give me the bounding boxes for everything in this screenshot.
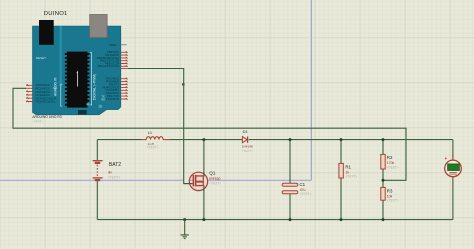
wire: D8 gate drive [128, 69, 191, 184]
transistor Q1 [184, 172, 208, 191]
svg-text:<TEXT>: <TEXT> [242, 149, 253, 153]
node: C1 top junction [289, 138, 292, 141]
svg-text:ARDUINO UNO R3: ARDUINO UNO R3 [32, 115, 62, 119]
node: R3 bottom junction [382, 218, 385, 221]
light stripe [60, 26, 62, 86]
svg-text:<TEXT>: <TEXT> [147, 145, 159, 149]
svg-text:<TEXT>: <TEXT> [300, 192, 312, 196]
wire: C1 bottom [289, 194, 291, 220]
Arduino DUINO1 [26, 11, 128, 124]
svg-text:PB0/ICP1/CLKO: PB0/ICP1/CLKO [98, 64, 120, 68]
svg-text:BAT2: BAT2 [109, 162, 121, 168]
capacitor C1 [282, 183, 298, 194]
svg-text:170k: 170k [387, 161, 395, 165]
ground [181, 220, 189, 239]
node: feedback divider junction [382, 179, 385, 182]
svg-text:RESET: RESET [36, 56, 46, 60]
right bottom pin labels [102, 77, 119, 101]
svg-text:R2: R2 [387, 155, 393, 160]
diode D1 [242, 137, 247, 143]
resistor R2 [381, 154, 385, 169]
wire: MOSFET drain [203, 140, 205, 175]
node: R1 bottom junction [340, 218, 343, 221]
node: source junction [202, 218, 205, 221]
right top pins [121, 51, 128, 68]
aref pin [121, 44, 127, 46]
node: C1 bottom junction [289, 218, 292, 221]
battery BAT2 [93, 161, 103, 180]
svg-text:<TEXT>: <TEXT> [32, 120, 43, 124]
wire: R3 bottom [382, 200, 384, 219]
svg-text:<TEXT>: <TEXT> [387, 165, 399, 169]
svg-text:ON: ON [53, 87, 57, 90]
wire: lavender gate net vertical [310, 0, 312, 180]
node: drain junction [202, 138, 205, 141]
wire: voltmeter bottom drop [452, 177, 454, 220]
svg-text:C1: C1 [300, 182, 306, 187]
chip marking [76, 72, 79, 87]
svg-text:<TEXT>: <TEXT> [387, 199, 399, 203]
right top pin labels [97, 50, 120, 68]
svg-text:<TEXT>: <TEXT> [345, 175, 357, 179]
svg-text:PD0/RXD: PD0/RXD [106, 97, 119, 101]
usb connector [90, 15, 107, 38]
svg-text:8v: 8v [108, 170, 112, 174]
wire: R2 bottom to junction [382, 169, 384, 187]
svg-text:L1: L1 [148, 131, 152, 135]
wire: battery bottom branch [96, 181, 98, 220]
icsp header [78, 110, 87, 114]
silk brackets [61, 84, 62, 106]
wire: MOSFET source [203, 186, 205, 220]
wire: A1 feedback sense net [13, 88, 406, 180]
svg-text:IRF530: IRF530 [209, 177, 220, 181]
wire: C1 top [289, 140, 291, 183]
inductor L1 [143, 137, 170, 140]
wire: top rail L1 to D1 [169, 139, 242, 141]
svg-text:PC5/ADC5/SCL: PC5/ADC5/SCL [36, 100, 57, 104]
svg-text:RX: RX [102, 98, 106, 101]
wire: bottom ground rail [97, 219, 453, 221]
wire: R2 top [382, 140, 384, 155]
svg-text:AREF: AREF [109, 43, 117, 47]
voltmeter [445, 154, 462, 177]
resistor R1 [339, 163, 343, 178]
svg-text:R3: R3 [387, 188, 393, 193]
wire: top rail battery to L1 [97, 139, 142, 141]
node: wire direction mark [182, 83, 185, 85]
wire: lavender gate net horizontal [0, 0, 311, 180]
svg-text:DIGITAL (~PWM): DIGITAL (~PWM) [93, 74, 97, 100]
resistor R3 [381, 187, 385, 200]
right bottom pins [121, 78, 128, 100]
node: R2 top junction [382, 138, 385, 141]
wire: R1 top [340, 140, 342, 164]
wire: R1 bottom [340, 178, 342, 219]
wire: battery top branch [96, 140, 98, 161]
svg-text:1N4148: 1N4148 [242, 145, 253, 149]
power jack [39, 20, 54, 45]
left pin labels [36, 83, 57, 104]
wire: voltmeter top drop [452, 140, 454, 161]
svg-text:Q1: Q1 [209, 171, 216, 176]
svg-text:R1: R1 [345, 164, 351, 169]
node: ground junction [183, 218, 186, 221]
left pins [26, 84, 33, 102]
node: R1 top junction [340, 138, 343, 141]
atmega chip [65, 52, 90, 108]
board pcb [33, 26, 121, 115]
svg-text:D1: D1 [243, 129, 249, 134]
svg-text:<TEXT>: <TEXT> [108, 175, 121, 179]
wire: top rail D1 to voltmeter [249, 139, 453, 141]
svg-text:DUINO1: DUINO1 [44, 11, 68, 17]
svg-text:<TEXT>: <TEXT> [209, 181, 221, 185]
